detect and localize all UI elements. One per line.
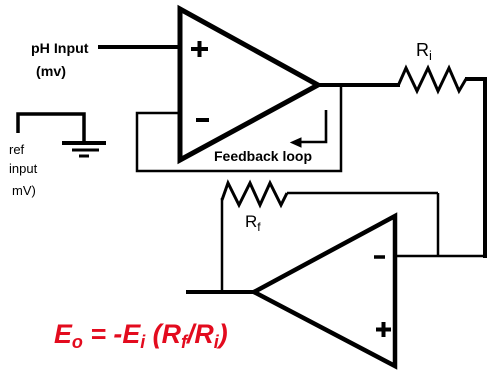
wire Rf right to vertical bbox=[287, 192, 438, 195]
arrow into feedback loop bbox=[299, 110, 326, 142]
svg-text:Feedback loop: Feedback loop bbox=[214, 148, 312, 164]
wire pH input to U1 + bbox=[98, 45, 181, 49]
U1 plus input symbol bbox=[191, 41, 208, 57]
U1 minus input symbol bbox=[196, 118, 209, 122]
wire inverting input of U2 bbox=[395, 255, 487, 258]
svg-text:input: input bbox=[9, 161, 38, 176]
svg-text:(mv): (mv) bbox=[36, 64, 66, 80]
wire U2 output bbox=[186, 290, 255, 294]
wire feedback loop box bbox=[137, 87, 341, 171]
U2 minus input symbol bbox=[374, 255, 385, 259]
svg-text:mV): mV) bbox=[12, 183, 36, 198]
resistor Ri bbox=[398, 68, 466, 91]
U2 plus input symbol bbox=[376, 322, 391, 337]
svg-text:pH Input: pH Input bbox=[31, 41, 89, 57]
op-amp U1 bbox=[180, 9, 318, 160]
ground bbox=[62, 143, 106, 156]
wire Rf left vertical down to output bbox=[221, 198, 224, 292]
svg-text:ref: ref bbox=[9, 142, 25, 157]
op-amp U2 bbox=[254, 216, 395, 366]
wire right vertical down bbox=[483, 79, 487, 258]
wire ref input L-shape bbox=[18, 114, 84, 143]
wire Ri to right vertical bbox=[465, 77, 487, 81]
wire vertical down to inverting input bbox=[437, 193, 440, 257]
wire U1 output bbox=[316, 83, 400, 87]
resistor Rf bbox=[222, 183, 287, 205]
